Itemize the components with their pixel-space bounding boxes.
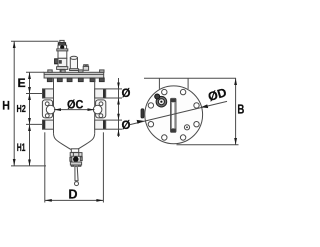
dimension D arrows [45,199,104,202]
svg-text:Ø: Ø [122,120,131,132]
vent valve shoulder flange [57,49,68,51]
dimension H arrows [13,41,16,166]
right stub port row1 [95,89,106,98]
dimension stub arrows row2 [117,114,120,136]
vent valve lower body [58,58,67,66]
vessel shell right wall [94,78,96,133]
right flanged port [93,100,106,118]
drain base [70,162,81,165]
left stub port row2 [43,120,54,129]
wire D left extension [44,132,46,202]
vessel dished bottom [54,133,95,149]
vent valve dark ball [60,45,64,49]
plan view neck right line [187,78,189,89]
drain ball body [70,157,72,161]
svg-text:H1: H1 [17,142,26,154]
drain handle blade [75,166,78,181]
dimension OD right arrow [201,104,208,108]
svg-text:D: D [68,187,77,201]
gauge cylinder on cover [70,56,79,70]
plan left port bar [141,109,144,118]
dimension E arrows [28,72,31,93]
vent valve top cap [60,40,64,42]
dimension H1 arrows [28,124,31,165]
svg-text:B: B [237,101,244,116]
cover bolt nuts below plate [47,78,104,82]
drain neck [71,149,78,153]
dimension stub diameter line [118,78,120,137]
dimension OD diagonal line [130,101,227,124]
vent valve body detail [59,60,62,64]
vent valve ball housing [58,45,67,49]
vent valve stem [60,69,64,72]
wire port2 centerline extension [26,123,43,125]
svg-text:E: E [18,76,26,90]
wire B bottom extension [177,144,239,146]
dimension OD left arrow [137,120,144,124]
dimension B line [235,78,237,145]
dimension H2 arrows [28,94,31,125]
plan small drain hole [184,125,189,130]
wire D right extension [102,132,104,202]
plan bolt holes [148,89,199,140]
wire E top extension [26,71,44,73]
dimension stub arrows row1 [117,83,120,105]
vent valve top nut [58,43,65,45]
wire H bottom extension line [11,165,46,167]
plan knurled vent knob [155,94,167,107]
plan sight-glass slot [171,98,177,132]
right stub port row2 [95,120,106,129]
drain handle end ring [75,182,79,186]
plan view top flange line [144,77,236,79]
wire stub dim extension lines [106,88,122,90]
dimension OC line and arrows [54,109,95,111]
cover plate [44,72,104,78]
cover bolt heads above plate [48,70,104,72]
left stub port row1 [43,89,54,98]
plan view cover circle [145,86,203,144]
drain top flange [70,153,82,157]
dimension E-H2-H1 line [29,72,31,166]
gauge cylinder base [70,69,79,71]
vent valve base flare [57,67,68,70]
dimension H line [13,41,15,166]
wire H top extension line [11,40,59,42]
plan view neck left line [158,78,160,89]
svg-text:ØC: ØC [67,98,84,112]
vent valve assembly on cover [55,40,68,72]
svg-text:Ø: Ø [122,88,131,100]
svg-text:H: H [2,99,10,113]
small plug block on cover [83,65,88,71]
drain valve assembly [70,149,82,186]
svg-text:H2: H2 [17,104,27,115]
left flanged port [42,100,55,118]
wire port1 centerline extension [26,93,43,95]
vent valve upper body [58,51,67,58]
vent valve side outlet [55,59,58,64]
knurl blob [155,94,160,99]
cover plate mid line [44,73,104,75]
dimension B arrows [234,78,237,145]
dimension D line [45,199,104,201]
vessel shell left wall [53,78,55,133]
